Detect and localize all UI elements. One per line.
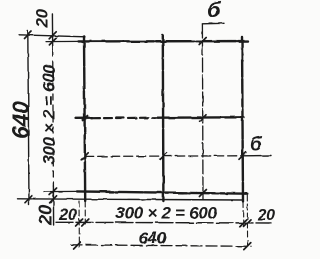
svg-text:б: б: [207, 0, 222, 23]
svg-text:20: 20: [257, 207, 276, 224]
svg-text:б: б: [250, 135, 263, 156]
svg-text:20: 20: [58, 206, 78, 224]
svg-text:300 × 2 = 600: 300 × 2 = 600: [116, 204, 218, 223]
svg-text:640: 640: [8, 101, 34, 139]
svg-text:640: 640: [139, 229, 167, 248]
svg-text:20: 20: [33, 8, 52, 28]
svg-text:20: 20: [35, 204, 56, 226]
svg-text:300 × 2 = 600: 300 × 2 = 600: [40, 64, 59, 165]
